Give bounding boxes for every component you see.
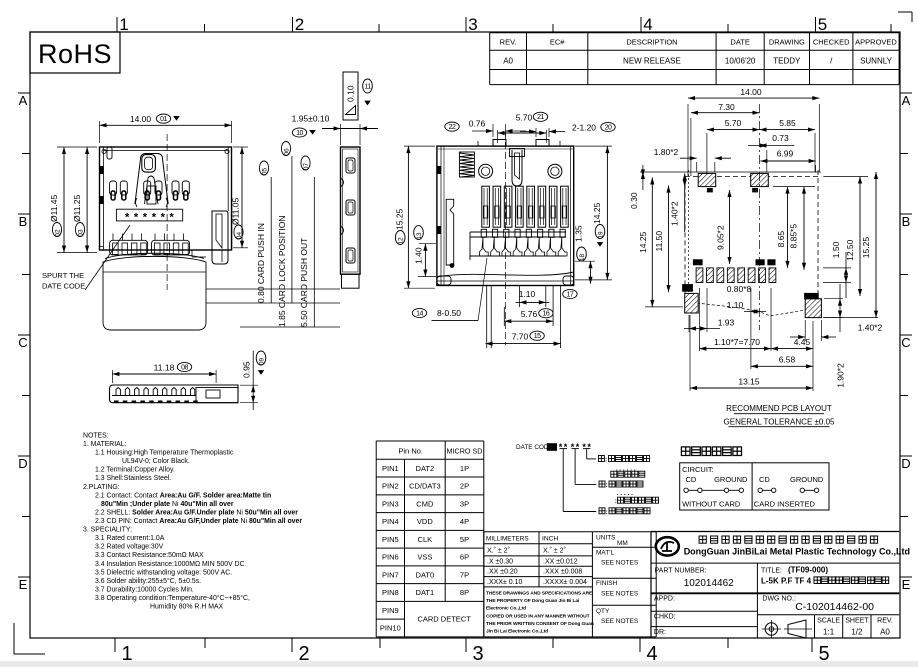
section view top tabs bbox=[493, 140, 506, 147]
svg-text:GROUND: GROUND bbox=[714, 475, 748, 484]
svg-text:08: 08 bbox=[181, 364, 188, 371]
svg-text:05: 05 bbox=[262, 168, 269, 176]
svg-text:SUNNLY: SUNNLY bbox=[860, 57, 893, 66]
svg-text:5.50 CARD PUSH OUT: 5.50 CARD PUSH OUT bbox=[299, 238, 309, 327]
svg-text:COPIED OR USED IN ANY MANNER W: COPIED OR USED IN ANY MANNER WITHOUT bbox=[486, 613, 590, 619]
svg-text:THE PRIOR WRITTEN CONSENT OF D: THE PRIOR WRITTEN CONSENT OF Dong Guan bbox=[486, 621, 594, 627]
front view centerline bbox=[166, 134, 168, 290]
dim 14.25 pcb left bbox=[651, 178, 653, 307]
svg-text::: : bbox=[606, 482, 608, 489]
svg-text:1.80*2: 1.80*2 bbox=[654, 147, 679, 157]
svg-text:20: 20 bbox=[605, 124, 612, 131]
svg-text:SEE NOTES: SEE NOTES bbox=[601, 560, 639, 567]
svg-text:1. MATERIAL:: 1. MATERIAL: bbox=[83, 441, 127, 448]
svg-text:TEDDY: TEDDY bbox=[773, 57, 801, 66]
svg-text:DAT1: DAT1 bbox=[416, 588, 435, 597]
svg-text:.XX ±0.20: .XX ±0.20 bbox=[487, 569, 518, 576]
svg-text:CD/DAT3: CD/DAT3 bbox=[409, 482, 441, 491]
svg-text:2: 2 bbox=[298, 643, 309, 665]
svg-text:0.30: 0.30 bbox=[629, 192, 639, 209]
svg-text:CMD: CMD bbox=[416, 499, 434, 508]
svg-text:REV.: REV. bbox=[500, 38, 517, 47]
svg-text:2.2 SHELL: Solder Area:Au: 2.2 SHELL: Solder Area:Au G/F.Under plat… bbox=[95, 509, 298, 516]
svg-text:5P: 5P bbox=[460, 535, 469, 544]
svg-text:CARD INSERTED: CARD INSERTED bbox=[754, 500, 816, 509]
svg-text:SEE NOTES: SEE NOTES bbox=[601, 618, 639, 625]
zone ticks top bbox=[116, 17, 118, 32]
dim 11.25 left bbox=[86, 147, 88, 253]
svg-text:PIN2: PIN2 bbox=[382, 482, 399, 491]
svg-text:PIN5: PIN5 bbox=[382, 535, 399, 544]
svg-text:SEE NOTES: SEE NOTES bbox=[601, 591, 639, 598]
svg-text:0.95: 0.95 bbox=[242, 361, 252, 378]
svg-text:*: * bbox=[587, 442, 591, 452]
svg-text::: : bbox=[606, 509, 608, 516]
front view body outline bbox=[100, 147, 232, 250]
corner bracket bottom-left bbox=[13, 623, 15, 654]
svg-text:1P: 1P bbox=[460, 464, 469, 473]
svg-text:5: 5 bbox=[818, 643, 829, 665]
svg-text:3: 3 bbox=[472, 643, 483, 665]
svg-text:PIN1: PIN1 bbox=[382, 464, 399, 473]
switch card status heading bbox=[681, 447, 690, 456]
svg-text:THE PROPERTY OF Dong Guan Jin: THE PROPERTY OF Dong Guan Jin Bi Lai bbox=[486, 598, 580, 604]
svg-text:3.8 Operating condition:Temp: 3.8 Operating condition:Temperature-40°C… bbox=[95, 594, 250, 602]
balloon 11 and triangle bbox=[363, 79, 373, 93]
svg-text:3.3 Contact Resistance:50mΩ: 3.3 Contact Resistance:50mΩ MAX bbox=[95, 552, 204, 559]
section view bottom-left foot bbox=[437, 276, 451, 285]
dim 0.76 section top bbox=[492, 124, 494, 137]
dim 8.85*5 pcb bbox=[803, 187, 805, 270]
svg-text:Ø11.05: Ø11.05 bbox=[231, 197, 241, 225]
dim 5.76 section bottom bbox=[504, 320, 553, 322]
svg-text:06: 06 bbox=[284, 148, 291, 156]
svg-text:80u"Min ;Under plate Ni 40u"Mi: 80u"Min ;Under plate Ni 40u"Min all over bbox=[101, 501, 234, 508]
dim 14.00 front top bbox=[99, 121, 101, 143]
section view body outline bbox=[437, 146, 574, 285]
svg-text:15: 15 bbox=[534, 333, 541, 340]
svg-text:PART NUMBER:: PART NUMBER: bbox=[655, 568, 707, 575]
svg-text:DATE: DATE bbox=[730, 38, 749, 47]
svg-text:Jin Bi Lai Electronic Co.,Ltd: Jin Bi Lai Electronic Co.,Ltd bbox=[486, 629, 548, 635]
svg-text:DESCRIPTION: DESCRIPTION bbox=[626, 38, 677, 47]
svg-text:0.10: 0.10 bbox=[346, 85, 356, 102]
svg-text:RECOMMEND PCB LAYOUT: RECOMMEND PCB LAYOUT bbox=[726, 404, 832, 413]
section view centerline bbox=[504, 132, 506, 345]
svg-text:SPURT THE: SPURT THE bbox=[42, 271, 84, 280]
svg-text:5.70: 5.70 bbox=[516, 113, 533, 123]
dim 2-1.20 section top bbox=[535, 128, 537, 137]
svg-text:*: * bbox=[564, 442, 568, 452]
section view card bottom extensions bbox=[486, 285, 488, 348]
svg-text:1:1: 1:1 bbox=[823, 628, 835, 637]
svg-text:CIRCUIT:: CIRCUIT: bbox=[682, 465, 714, 474]
dim 1.90*2 pcb bottom right bbox=[824, 298, 843, 300]
front view date code strip bbox=[116, 209, 182, 221]
svg-text:8P: 8P bbox=[460, 588, 469, 597]
svg-text:.XXX± 0.10: .XXX± 0.10 bbox=[487, 579, 522, 586]
svg-text:REV.: REV. bbox=[877, 618, 893, 625]
svg-text:2P: 2P bbox=[460, 482, 469, 491]
svg-text:4.45: 4.45 bbox=[794, 337, 811, 347]
units material finish qty column bbox=[592, 531, 656, 533]
pcb centerline dashed bbox=[759, 104, 761, 330]
svg-text:FINISH: FINISH bbox=[596, 580, 618, 587]
svg-text:NEW RELEASE: NEW RELEASE bbox=[623, 57, 681, 66]
svg-text:. . . . .: . . . . . bbox=[617, 490, 633, 497]
svg-text:APPD:: APPD: bbox=[654, 596, 675, 603]
svg-text:*: * bbox=[134, 212, 139, 224]
svg-text::: : bbox=[615, 498, 617, 505]
svg-text:16: 16 bbox=[543, 311, 550, 318]
company chinese name bbox=[699, 536, 706, 543]
svg-text:14: 14 bbox=[416, 310, 423, 317]
svg-text:E: E bbox=[902, 577, 911, 592]
svg-text:C: C bbox=[18, 335, 27, 350]
pcb top pad black squares bbox=[707, 188, 713, 192]
svg-text:RoHS: RoHS bbox=[38, 39, 112, 69]
pin assignment table bbox=[376, 440, 484, 442]
svg-text:X.˚ ± 2˚: X.˚ ± 2˚ bbox=[543, 547, 566, 555]
svg-text:07: 07 bbox=[303, 163, 310, 171]
svg-text:21: 21 bbox=[537, 114, 544, 121]
svg-text:WITHOUT CARD: WITHOUT CARD bbox=[682, 500, 741, 509]
svg-text:14.00: 14.00 bbox=[740, 87, 762, 97]
svg-text:UNITS: UNITS bbox=[596, 535, 616, 542]
svg-text:1.10*7=7.70: 1.10*7=7.70 bbox=[714, 337, 760, 347]
svg-text:10/06'20: 10/06'20 bbox=[725, 57, 756, 66]
pcb big pad left hatched bbox=[685, 293, 699, 313]
svg-text:.XXXX± 0.004: .XXXX± 0.004 bbox=[543, 579, 587, 586]
svg-text:PIN4: PIN4 bbox=[382, 517, 399, 526]
zone ticks bottom bbox=[114, 638, 116, 652]
svg-text:*: * bbox=[143, 212, 148, 224]
dim 1.10 section bottom bbox=[516, 301, 550, 303]
svg-text:5.76: 5.76 bbox=[521, 309, 538, 319]
svg-text:11.18: 11.18 bbox=[154, 363, 175, 373]
pcb bottom pad row hatched bbox=[696, 268, 703, 283]
svg-text:7.70: 7.70 bbox=[512, 332, 529, 342]
dim 14.25 section right bbox=[575, 145, 612, 147]
pcb top pads hatched bbox=[698, 173, 716, 186]
tolerance table millimeters inch bbox=[484, 531, 593, 533]
svg-text:1.40*2: 1.40*2 bbox=[670, 201, 680, 226]
svg-text:PIN10: PIN10 bbox=[380, 624, 401, 633]
section view contact pins bbox=[482, 186, 490, 227]
svg-text:6.58: 6.58 bbox=[779, 355, 796, 365]
svg-text:DR:: DR: bbox=[654, 629, 666, 636]
svg-text:09: 09 bbox=[259, 358, 266, 366]
svg-text:15.25: 15.25 bbox=[395, 208, 405, 230]
svg-text:1: 1 bbox=[121, 643, 132, 665]
switch status box bbox=[680, 463, 829, 510]
dim 11.18 bottom view bbox=[111, 370, 113, 383]
svg-text:02: 02 bbox=[55, 229, 62, 237]
svg-text:1.85 CARD LOCK POSITION: 1.85 CARD LOCK POSITION bbox=[277, 216, 287, 327]
svg-text:15.25: 15.25 bbox=[861, 237, 871, 259]
label card push in bbox=[270, 177, 272, 303]
svg-text:03: 03 bbox=[78, 229, 85, 237]
svg-text:D: D bbox=[901, 456, 910, 471]
svg-text:PIN9: PIN9 bbox=[382, 606, 399, 615]
svg-text:CLK: CLK bbox=[418, 535, 433, 544]
svg-text:8.65: 8.65 bbox=[776, 231, 786, 248]
pcb footprint dashed outline bbox=[685, 175, 818, 177]
svg-text:2: 2 bbox=[295, 15, 304, 34]
svg-text:SHEET: SHEET bbox=[845, 618, 869, 625]
svg-text:01: 01 bbox=[160, 116, 167, 123]
section view center latch detail bbox=[512, 150, 522, 186]
bottom view body bbox=[110, 385, 239, 403]
dim 1.50 pcb right bbox=[823, 267, 851, 269]
svg-text:L-5K P.F TF 4: L-5K P.F TF 4 bbox=[761, 577, 812, 586]
dim 11.05 right of front view bbox=[233, 146, 248, 148]
svg-text:DRAWING: DRAWING bbox=[769, 38, 805, 47]
svg-text:C-102014462-00: C-102014462-00 bbox=[795, 601, 874, 613]
svg-text:Ø11.25: Ø11.25 bbox=[72, 194, 82, 222]
dim 0.73 pcb bbox=[766, 150, 768, 172]
svg-text:MICRO SD: MICRO SD bbox=[447, 447, 483, 456]
svg-text:VSS: VSS bbox=[417, 553, 432, 562]
side view body bbox=[341, 147, 361, 274]
svg-text:3P: 3P bbox=[460, 499, 469, 508]
svg-text:*: * bbox=[559, 442, 563, 452]
svg-text:5: 5 bbox=[818, 15, 827, 34]
svg-text:*: * bbox=[571, 442, 575, 452]
svg-text:1.40*2: 1.40*2 bbox=[858, 322, 883, 332]
corner bracket top-right bbox=[898, 11, 912, 13]
pcb big pad right hatched bbox=[805, 299, 821, 318]
svg-text:CD: CD bbox=[686, 475, 697, 484]
svg-text:DongGuan JinBiLai Metal Pla: DongGuan JinBiLai Metal Plastic Technolo… bbox=[684, 547, 910, 557]
dim 6.99 pcb bbox=[815, 165, 817, 172]
svg-text:3. SPECIALITY:: 3. SPECIALITY: bbox=[83, 527, 132, 534]
section view pin rail bbox=[470, 231, 566, 233]
pcb reference lines bbox=[640, 171, 821, 173]
svg-text:PIN8: PIN8 bbox=[382, 588, 399, 597]
svg-text:5.85: 5.85 bbox=[779, 118, 796, 128]
svg-text:C: C bbox=[901, 335, 910, 350]
dim 15.25 section left bbox=[404, 145, 435, 147]
dim 1.95 bbox=[340, 124, 342, 145]
svg-text:14.25: 14.25 bbox=[638, 231, 648, 253]
svg-text:*: * bbox=[125, 212, 130, 224]
company logo bbox=[656, 537, 679, 555]
svg-text:MAT'L: MAT'L bbox=[596, 550, 614, 557]
svg-text:INCH: INCH bbox=[542, 536, 558, 543]
svg-text:1.10: 1.10 bbox=[727, 300, 744, 310]
dim 12.50 pcb right bbox=[859, 177, 861, 297]
svg-text:1.50: 1.50 bbox=[831, 241, 841, 258]
dim 5.70 pcb bbox=[706, 133, 708, 173]
dim 0.95 bottom view bbox=[240, 384, 258, 386]
svg-text:3.4 Insulation Resistance:10: 3.4 Insulation Resistance:1000MΩ MIN 500… bbox=[95, 561, 245, 568]
svg-text:1.90*2: 1.90*2 bbox=[836, 363, 846, 388]
svg-text:1.10: 1.10 bbox=[519, 289, 536, 299]
svg-text:12.50: 12.50 bbox=[845, 239, 855, 261]
dim 1.80*2 pcb bbox=[696, 162, 698, 172]
front view contact slots bbox=[110, 181, 117, 195]
svg-text:B: B bbox=[19, 214, 28, 229]
dim 1.40*2 pcb left bbox=[684, 173, 686, 232]
pcb black squares above pad row bbox=[693, 259, 703, 265]
svg-text:DAT0: DAT0 bbox=[416, 570, 435, 579]
svg-text:NOTES:: NOTES: bbox=[83, 432, 109, 439]
svg-text:*: * bbox=[170, 212, 175, 224]
svg-text:*: * bbox=[161, 212, 166, 224]
svg-text:UL94V-0; Color Black.: UL94V-0; Color Black. bbox=[122, 458, 190, 465]
svg-text:E: E bbox=[19, 577, 28, 592]
svg-text:5.70: 5.70 bbox=[725, 118, 742, 128]
front view baseline rails bbox=[206, 288, 340, 290]
svg-text:A0: A0 bbox=[503, 57, 513, 66]
svg-text:CHKD:: CHKD: bbox=[654, 613, 676, 620]
svg-text:0.80*8: 0.80*8 bbox=[727, 284, 752, 294]
svg-text:19: 19 bbox=[598, 231, 605, 239]
title block frame bbox=[651, 531, 899, 533]
dim 11.50 pcb left bbox=[668, 186, 670, 293]
svg-text:4: 4 bbox=[646, 643, 657, 665]
front view ejector lever bbox=[212, 211, 228, 264]
svg-text:6.99: 6.99 bbox=[777, 148, 794, 158]
svg-text:1.3 Shell:Stainless Steel.: 1.3 Shell:Stainless Steel. bbox=[95, 475, 171, 482]
svg-text:DAT2: DAT2 bbox=[416, 464, 435, 473]
svg-text:Electronic Co.,Ltd: Electronic Co.,Ltd bbox=[486, 606, 526, 612]
svg-text:3.7 Durability:10000 Cycles: 3.7 Durability:10000 Cycles Min. bbox=[95, 586, 194, 593]
revision table bbox=[490, 32, 899, 34]
svg-text:(TF09-000): (TF09-000) bbox=[788, 566, 828, 575]
svg-text:2.3 CD PIN: Contact Area:A: 2.3 CD PIN: Contact Area:Au G/F,Under pl… bbox=[95, 518, 302, 525]
svg-text:X.˚ ± 2˚: X.˚ ± 2˚ bbox=[487, 547, 510, 555]
svg-text::: : bbox=[605, 457, 607, 464]
svg-text:4: 4 bbox=[643, 15, 652, 34]
dim 5.85 pcb bbox=[814, 133, 816, 172]
svg-text:1.2 Terminal:Copper Alloy.: 1.2 Terminal:Copper Alloy. bbox=[95, 467, 175, 474]
dim 9.05*2 pcb bbox=[729, 190, 731, 264]
svg-text:DWG NO.:: DWG NO.: bbox=[762, 596, 795, 603]
svg-text:2.1 Contact: Contact Area:A: 2.1 Contact: Contact Area:Au G/F. Solder… bbox=[95, 492, 271, 499]
svg-text:13: 13 bbox=[416, 232, 423, 240]
section view card curve bbox=[437, 272, 574, 277]
svg-text:MILLIMETERS: MILLIMETERS bbox=[486, 536, 529, 543]
svg-text:CHECKED: CHECKED bbox=[813, 38, 850, 47]
svg-text:Humidity 80% R.H MAX: Humidity 80% R.H MAX bbox=[150, 604, 224, 611]
svg-text:11: 11 bbox=[364, 83, 371, 90]
svg-text:CD: CD bbox=[759, 475, 770, 484]
svg-text:APPROVED: APPROVED bbox=[855, 38, 897, 47]
svg-text:3.5 Dielectric withstanding: 3.5 Dielectric withstanding voltage: 500… bbox=[95, 569, 232, 576]
svg-text:18: 18 bbox=[579, 254, 586, 262]
svg-text:CARD DETECT: CARD DETECT bbox=[417, 615, 471, 624]
svg-text:*: * bbox=[576, 442, 580, 452]
flatness control frame 0.10 bbox=[343, 72, 358, 120]
svg-text:1: 1 bbox=[119, 15, 128, 34]
dim 14.00 pcb bbox=[687, 104, 689, 176]
svg-text:.XX ±0.012: .XX ±0.012 bbox=[543, 558, 578, 565]
svg-text:0.76: 0.76 bbox=[469, 119, 486, 129]
front view center latch bbox=[135, 154, 168, 205]
svg-text:SCALE: SCALE bbox=[817, 618, 840, 625]
zone ticks right bbox=[900, 92, 912, 94]
svg-text:A: A bbox=[902, 93, 911, 108]
label card push out bbox=[313, 177, 315, 327]
svg-text:EC#: EC# bbox=[550, 38, 565, 47]
svg-text:0.73: 0.73 bbox=[772, 133, 789, 143]
svg-text:1/2: 1/2 bbox=[851, 628, 863, 637]
dim 5.70 section top bbox=[497, 130, 499, 143]
dim 15.25 pcb right bbox=[875, 172, 877, 318]
svg-text:MM: MM bbox=[617, 540, 628, 547]
svg-text:14.00: 14.00 bbox=[130, 114, 152, 124]
svg-text:GROUND: GROUND bbox=[790, 475, 824, 484]
svg-text:A: A bbox=[19, 93, 28, 108]
projection symbol bbox=[765, 623, 777, 635]
svg-text:8.85*5: 8.85*5 bbox=[789, 224, 799, 249]
dim 7.70 section bottom bbox=[486, 343, 561, 345]
svg-text:10: 10 bbox=[296, 130, 303, 137]
svg-text:22: 22 bbox=[449, 124, 456, 131]
dim 11.45 left bbox=[57, 146, 97, 148]
svg-text:1.40: 1.40 bbox=[414, 247, 424, 264]
svg-text:THESE DRAWINGS AND SPECIFICATI: THESE DRAWINGS AND SPECIFICATIONS ARE bbox=[486, 591, 593, 597]
svg-text:.XXX ±0.008: .XXX ±0.008 bbox=[543, 569, 582, 576]
dim 0.30 pcb left bbox=[642, 165, 644, 190]
section view boss circles bbox=[479, 164, 493, 178]
svg-text:04: 04 bbox=[236, 232, 243, 240]
svg-text:3: 3 bbox=[468, 15, 477, 34]
svg-text:QTY: QTY bbox=[596, 608, 610, 615]
svg-text:4P: 4P bbox=[460, 517, 469, 526]
dim 1.35 section right bbox=[575, 260, 595, 262]
label card lock position bbox=[291, 156, 293, 303]
svg-text:VDD: VDD bbox=[417, 517, 433, 526]
svg-text:0.80 CARD PUSH IN: 0.80 CARD PUSH IN bbox=[256, 223, 266, 303]
svg-text:B: B bbox=[902, 214, 911, 229]
svg-text:7.30: 7.30 bbox=[718, 102, 735, 112]
svg-text:3.1 Rated current:1.0A: 3.1 Rated current:1.0A bbox=[95, 535, 165, 542]
dim 7.30 pcb bbox=[690, 118, 692, 176]
svg-text:3.6 Solder ability:255±5°C,: 3.6 Solder ability:255±5°C, 5±0.5s. bbox=[95, 577, 201, 585]
svg-text:9.05*2: 9.05*2 bbox=[716, 225, 726, 250]
svg-text:TITLE:: TITLE: bbox=[761, 568, 782, 575]
svg-text:8-0.50: 8-0.50 bbox=[437, 308, 461, 318]
svg-text:7P: 7P bbox=[460, 570, 469, 579]
front view small top notch bbox=[107, 147, 112, 159]
section view spring zigzag bbox=[459, 153, 474, 177]
dim 8.65 pcb bbox=[787, 187, 789, 268]
svg-text:Ø11.45: Ø11.45 bbox=[49, 194, 59, 222]
front view card outline bbox=[103, 256, 206, 330]
svg-text:1.35: 1.35 bbox=[574, 225, 584, 242]
svg-text:3.2 Rated voltage:30V: 3.2 Rated voltage:30V bbox=[95, 544, 164, 551]
svg-text:6P: 6P bbox=[460, 553, 469, 562]
svg-text:Pin No.: Pin No. bbox=[398, 447, 423, 456]
RoHS logo box bbox=[30, 32, 120, 73]
section view ejector rod bbox=[446, 199, 454, 265]
svg-text:2-1.20: 2-1.20 bbox=[572, 123, 596, 133]
svg-text:102014462: 102014462 bbox=[684, 578, 734, 589]
svg-text:2.PLATING:: 2.PLATING: bbox=[83, 484, 120, 491]
svg-text:14.25: 14.25 bbox=[592, 202, 602, 224]
svg-text:PIN3: PIN3 bbox=[382, 499, 399, 508]
svg-text:D: D bbox=[18, 456, 27, 471]
svg-text:A0: A0 bbox=[880, 628, 890, 637]
svg-text:12: 12 bbox=[398, 237, 405, 245]
svg-text:GENERAL TOLERANCE ±0.05: GENERAL TOLERANCE ±0.05 bbox=[724, 417, 836, 426]
svg-text:1.93: 1.93 bbox=[718, 317, 735, 327]
svg-text:*: * bbox=[152, 212, 157, 224]
svg-text:11.50: 11.50 bbox=[654, 231, 664, 252]
